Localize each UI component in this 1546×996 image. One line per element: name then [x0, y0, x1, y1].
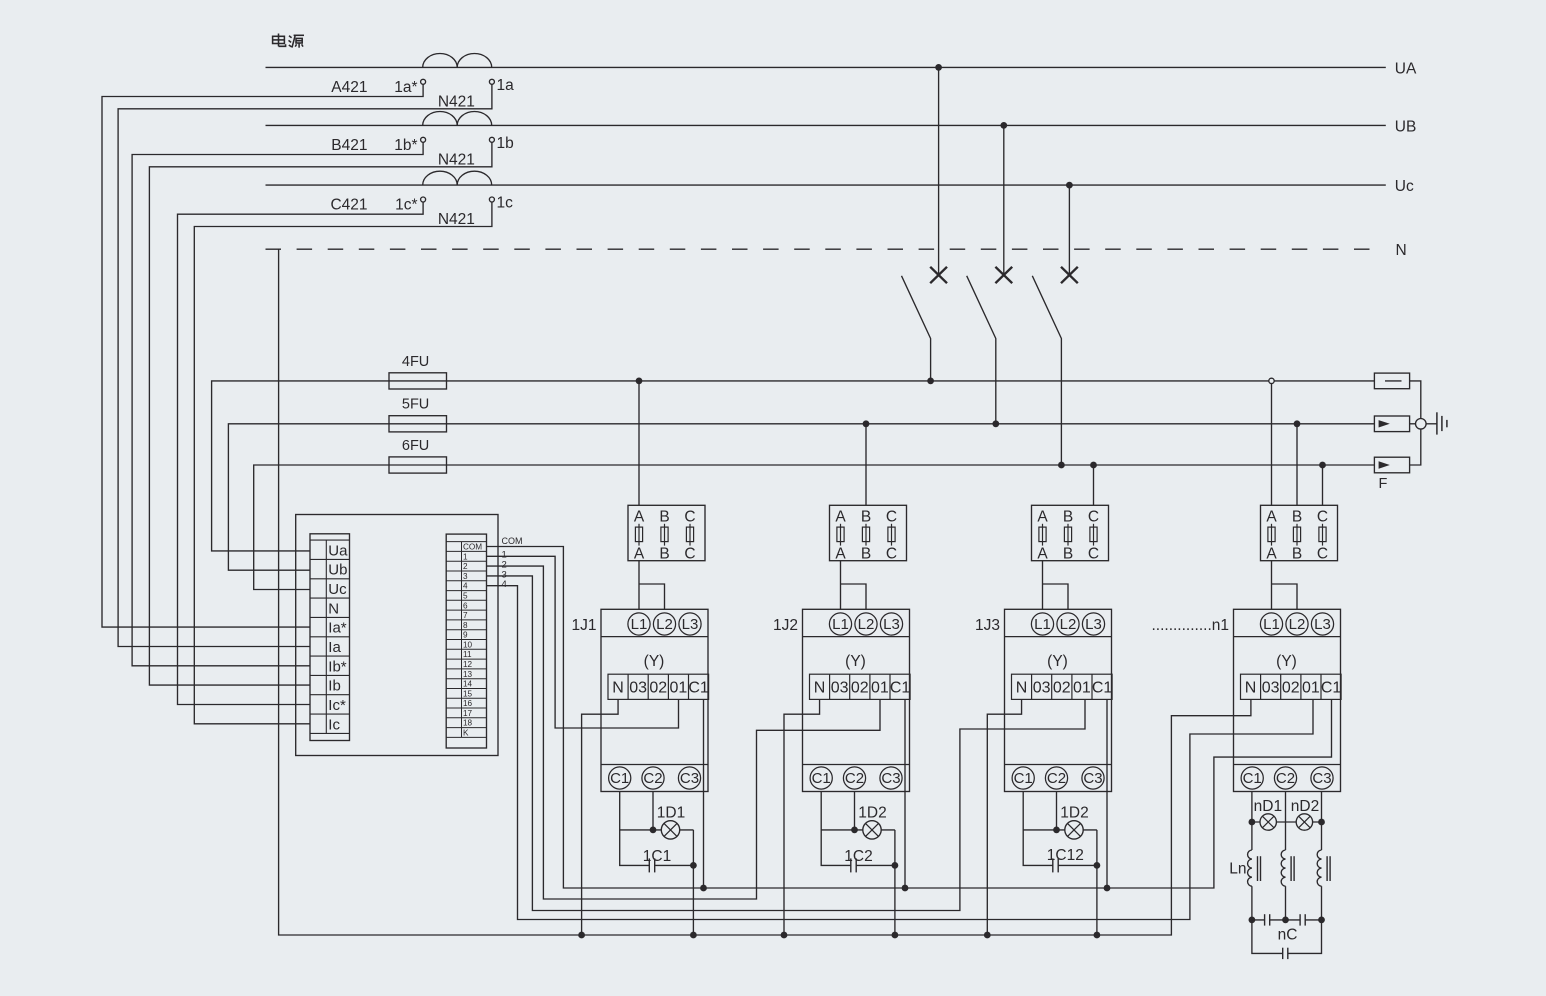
arrester box 1 element line [1385, 380, 1402, 382]
inductor Ln coil [1248, 850, 1252, 886]
svg-text:B: B [1063, 509, 1073, 526]
svg-text:C: C [1088, 545, 1099, 562]
svg-text:13: 13 [463, 670, 473, 679]
svg-text:A421: A421 [331, 79, 367, 96]
fuse box A B C of n1 [1261, 505, 1338, 560]
wire lamp row of 1J2 [821, 829, 895, 831]
svg-text:C3: C3 [680, 770, 699, 787]
svg-text:A: A [1266, 545, 1277, 562]
svg-text:A: A [835, 545, 846, 562]
svg-text:A: A [1266, 509, 1277, 526]
svg-text:Ia: Ia [328, 639, 341, 656]
wire lamp of 1J2 to neutral bus [894, 830, 896, 935]
svg-text:C1: C1 [812, 770, 831, 787]
terminal L2 of n1 [1286, 613, 1308, 635]
svg-text:17: 17 [463, 709, 473, 718]
meter n1 body [1234, 609, 1341, 791]
svg-text:1D2: 1D2 [1060, 804, 1088, 821]
svg-text:N: N [328, 600, 339, 617]
ground symbol [1437, 412, 1447, 434]
terminal L3 of 1J1 [679, 613, 701, 635]
svg-text:C1: C1 [1014, 770, 1033, 787]
svg-text:C3: C3 [1083, 770, 1102, 787]
current transformer C421 / N421 winding arcs [423, 171, 492, 185]
wire n1 C1 drop [1251, 792, 1253, 851]
terminal L3 of n1 [1311, 613, 1333, 635]
svg-text:Uc: Uc [1395, 178, 1414, 195]
node lamp net of 1J2 on neutral bus [892, 932, 899, 939]
wire 4FU to n1 fuse A [1271, 384, 1273, 506]
svg-text:C421: C421 [330, 197, 367, 214]
svg-text:Ib: Ib [328, 678, 341, 695]
wire lamp row of 1J3 [1023, 829, 1097, 831]
svg-text:02: 02 [1053, 679, 1071, 696]
svg-text:03: 03 [629, 679, 647, 696]
lamp nD1 [1260, 814, 1276, 830]
node n1 C3-lamp [1318, 819, 1325, 826]
svg-text:16: 16 [463, 699, 473, 708]
svg-text:03: 03 [1033, 679, 1051, 696]
svg-text:C: C [886, 509, 897, 526]
switch contact X phase C [1061, 267, 1078, 283]
svg-text:11: 11 [463, 650, 472, 659]
capacitor nC plates (right) [1300, 914, 1305, 925]
svg-text:1J1: 1J1 [572, 617, 597, 634]
fuse 5FU [389, 416, 447, 432]
wire fuse box to L1/L2 of n1 [1272, 561, 1298, 610]
svg-text:C: C [684, 545, 695, 562]
svg-text:L1: L1 [1034, 616, 1051, 633]
inductor lower lead [1251, 886, 1253, 920]
lamp 1D1 [661, 821, 679, 839]
meter 1J3 body [1005, 609, 1112, 791]
svg-text:B: B [861, 545, 871, 562]
inductor Ln coil [1281, 850, 1285, 886]
terminal block outer box [296, 515, 498, 756]
svg-text:C3: C3 [881, 770, 900, 787]
inductor lower lead [1285, 886, 1287, 920]
terminal L2 of 1J2 [855, 613, 877, 635]
wire net COM : C1 bus to all meters and n1 C1 [487, 547, 1332, 889]
terminal C3 (bottom) of 1J1 [678, 767, 700, 789]
svg-text:C: C [1088, 509, 1099, 526]
svg-text:C1: C1 [688, 679, 709, 696]
wire 4FU to 1J1 fuse A [638, 381, 640, 505]
svg-text:Ln: Ln [1229, 861, 1246, 878]
svg-text:B: B [659, 509, 669, 526]
svg-text:COM: COM [502, 536, 523, 546]
svg-text:N: N [1245, 679, 1257, 696]
fuse B of 1J3 [1067, 524, 1069, 546]
wire n1 lamp row [1252, 821, 1322, 823]
svg-text:1J2: 1J2 [773, 617, 798, 634]
node 5FU feed n1 [1294, 420, 1301, 427]
wire 1a to terminal strip [118, 84, 492, 646]
svg-text:1D2: 1D2 [858, 804, 886, 821]
svg-text:1C12: 1C12 [1047, 847, 1084, 864]
terminal L1 of n1 [1260, 613, 1282, 635]
terminal row N 03 02 01 C1 of n1 [1241, 674, 1342, 699]
svg-text:L2: L2 [858, 616, 875, 633]
node 4FU feed 1J1 [636, 378, 643, 385]
node C1 of 1J1 on COM bus [700, 885, 707, 892]
node N of 1J1 on neutral bus [578, 932, 585, 939]
svg-text:L1: L1 [1263, 616, 1280, 633]
svg-text:Ub: Ub [328, 562, 347, 579]
switch blade phase A [902, 276, 931, 381]
fuse box A B C of 1J1 [628, 505, 705, 560]
svg-text:N: N [814, 679, 826, 696]
meter 1J2 body [803, 609, 910, 791]
terminal 1c* circle [421, 197, 426, 202]
svg-text:K: K [463, 729, 469, 738]
terminal 1b* circle [421, 137, 426, 142]
fuse A of n1 [1271, 524, 1273, 546]
svg-text:6: 6 [463, 601, 468, 610]
svg-text:3: 3 [463, 572, 468, 581]
terminal 1c circle [489, 197, 494, 202]
node capacitor 1C2 junction [892, 862, 899, 869]
fuse A of 1J2 [840, 524, 842, 546]
node C2-lamp of 1J1 [650, 827, 657, 834]
svg-text:7: 7 [463, 611, 468, 620]
node n1 cap row C2 [1282, 917, 1289, 924]
node N of 1J2 on neutral bus [781, 932, 788, 939]
fuse B of 1J2 [865, 524, 867, 546]
svg-text:A: A [634, 545, 645, 562]
node 6FU feed 1J3 [1090, 462, 1097, 469]
node 6FU feed n1 [1319, 462, 1326, 469]
node n1 C1-lamp [1249, 819, 1256, 826]
fuse box A B C of 1J3 [1032, 505, 1109, 560]
inductor Ln coil [1317, 850, 1321, 886]
svg-text:01: 01 [1302, 679, 1320, 696]
wire n1 capacitor row [1252, 919, 1322, 921]
terminal row N 03 02 01 C1 of 1J1 [608, 674, 709, 699]
terminal C2 (bottom) of 1J2 [843, 767, 865, 789]
terminal L3 of 1J3 [1082, 613, 1104, 635]
terminal C2 (bottom) of 1J3 [1045, 767, 1067, 789]
svg-text:L2: L2 [656, 616, 673, 633]
wire arrester common vertical [1410, 381, 1421, 465]
svg-text:1C2: 1C2 [844, 848, 872, 865]
wire 4FU bus line with drop to voltage terminal [212, 381, 1375, 551]
svg-text:N421: N421 [438, 211, 475, 228]
svg-text:UA: UA [1395, 60, 1417, 77]
terminal row N 03 02 01 C1 of 1J2 [810, 674, 911, 699]
svg-text:C: C [886, 545, 897, 562]
svg-text:15: 15 [463, 689, 473, 698]
wire fuse box to L1/L2 of 1J1 [639, 561, 665, 610]
fuse 6FU [389, 457, 447, 473]
svg-text:1a*: 1a* [394, 79, 417, 96]
fuse B of n1 [1296, 524, 1298, 546]
svg-text:01: 01 [871, 679, 889, 696]
svg-text:C3: C3 [1312, 770, 1331, 787]
node tap phase B [1000, 122, 1007, 129]
fuse C of 1J3 [1093, 524, 1095, 546]
svg-text:nC: nC [1278, 927, 1298, 944]
svg-text:Ia*: Ia* [328, 620, 347, 637]
voltage/current terminal strip (left) [310, 534, 350, 741]
wire 6FU bus line with drop to voltage terminal [254, 465, 1375, 590]
svg-text:18: 18 [463, 719, 473, 728]
svg-text:COM: COM [463, 543, 482, 552]
fuse C of 1J1 [689, 524, 691, 546]
node C2-lamp of 1J3 [1053, 827, 1060, 834]
terminal L3 of 1J2 [880, 613, 902, 635]
inductor lower lead [1321, 886, 1323, 920]
svg-text:B: B [1292, 509, 1302, 526]
svg-text:nD2: nD2 [1291, 798, 1319, 815]
svg-text:6FU: 6FU [402, 438, 429, 454]
svg-text:C1: C1 [610, 770, 629, 787]
wire 1c to terminal strip [194, 202, 492, 724]
svg-text:1: 1 [463, 552, 468, 561]
wire C1 of 1J2 to COM bus [904, 699, 906, 888]
svg-text:..............n1: ..............n1 [1151, 617, 1229, 634]
terminal L2 of 1J3 [1057, 613, 1079, 635]
label 电源 (power source, drawn glyphs) [273, 34, 304, 48]
wire C1 of 1J1 to COM bus [703, 699, 705, 888]
svg-text:(Y): (Y) [1047, 653, 1068, 670]
meter 1J1 body [601, 609, 708, 791]
svg-text:4FU: 4FU [402, 354, 429, 370]
svg-text:Ua: Ua [328, 542, 348, 559]
node lamp net of 1J3 on neutral bus [1094, 932, 1101, 939]
node blade to bus phase B [992, 420, 999, 427]
svg-text:B: B [1063, 545, 1073, 562]
terminal C1 (bottom) of 1J1 [609, 767, 631, 789]
switch blade phase C [1032, 276, 1061, 465]
arrester box 3 (bottom, F) [1374, 457, 1409, 473]
svg-text:02: 02 [1282, 679, 1300, 696]
svg-text:5: 5 [463, 591, 468, 600]
wire box2 to earth circle [1410, 423, 1416, 425]
arrester box 3 arrow [1379, 461, 1390, 468]
wire lamp of 1J3 to neutral bus [1096, 830, 1098, 935]
node C2-lamp of 1J2 [851, 827, 858, 834]
wire lamp of 1J1 to neutral bus [692, 830, 694, 935]
svg-text:9: 9 [463, 631, 468, 640]
current transformer A421 / N421 winding arcs [423, 54, 492, 68]
wire net 4 : to n1 terminal 01 [487, 586, 1314, 920]
node n1 cap row C3 [1318, 917, 1325, 924]
terminal L2 of 1J1 [653, 613, 675, 635]
terminal C2 (bottom) of 1J1 [642, 767, 664, 789]
svg-text:A: A [1037, 545, 1048, 562]
svg-text:B: B [659, 545, 669, 562]
wire 5FU bus line with drop to voltage terminal [228, 424, 1374, 570]
terminal 1a* circle [421, 79, 426, 84]
svg-text:1C1: 1C1 [643, 848, 671, 865]
arrester box 2 (middle) [1374, 416, 1409, 432]
inductor core bars [1327, 856, 1330, 881]
lamp 1D2 [863, 821, 881, 839]
svg-text:1D1: 1D1 [657, 804, 685, 821]
node blade to bus phase C [1058, 462, 1065, 469]
terminal C3 (bottom) of 1J3 [1082, 767, 1104, 789]
svg-text:C: C [1317, 509, 1328, 526]
svg-text:N421: N421 [438, 152, 475, 169]
fuse 4FU [389, 373, 447, 389]
inductor core bars [1291, 856, 1294, 881]
wire 5FU to n1 fuse B [1296, 424, 1298, 506]
svg-text:4: 4 [502, 579, 507, 590]
svg-text:(Y): (Y) [1276, 653, 1297, 670]
svg-text:C2: C2 [1047, 770, 1066, 787]
wire C1 bottom of 1J3 down to capacitor 1C12 [1023, 792, 1053, 866]
wire C2 of 1J1 to lamp [652, 792, 654, 830]
wire C2 of 1J2 to lamp [854, 792, 856, 830]
current transformer B421 / N421 winding arcs [423, 112, 492, 126]
capacitor 1C1 [648, 858, 650, 872]
switch contact X phase B [995, 267, 1012, 283]
neutral line N (dashed) [266, 248, 1382, 250]
svg-text:12: 12 [463, 660, 473, 669]
terminal C1 (bottom) of 1J3 [1012, 767, 1034, 789]
fuse C of n1 [1322, 524, 1324, 546]
svg-text:N421: N421 [438, 94, 475, 111]
phase line UA [266, 66, 1386, 68]
fuse A of 1J3 [1042, 524, 1044, 546]
svg-text:L1: L1 [631, 616, 648, 633]
lamp 1D2 [1065, 821, 1083, 839]
svg-text:L3: L3 [682, 616, 699, 633]
node blade to bus phase A [927, 378, 934, 385]
wire circle to ground [1426, 423, 1437, 425]
wire phase C drop to switch [1068, 185, 1070, 275]
inductor core bars [1258, 856, 1261, 881]
svg-text:N: N [1396, 242, 1407, 259]
earth connection circle [1416, 419, 1427, 430]
bottom capacitor plates [1283, 948, 1288, 959]
svg-text:C1: C1 [1092, 679, 1113, 696]
wire 5FU to 1J2 fuse B [865, 424, 867, 506]
svg-text:Uc: Uc [328, 581, 347, 598]
svg-text:C1: C1 [1243, 770, 1262, 787]
svg-text:4: 4 [463, 582, 468, 591]
wire phase A drop to switch [938, 67, 940, 275]
fuse box A B C of 1J2 [830, 505, 907, 560]
terminal C3 (bottom) of n1 [1311, 767, 1333, 789]
terminal 1b circle [489, 137, 494, 142]
wire C1 bottom of 1J2 down to capacitor 1C2 [821, 792, 851, 866]
terminal C3 (bottom) of 1J2 [880, 767, 902, 789]
terminal L1 of 1J3 [1031, 613, 1053, 635]
switch contact X phase A [930, 267, 947, 283]
svg-text:1b: 1b [497, 135, 514, 152]
svg-text:Ic*: Ic* [328, 697, 346, 714]
terminal row N 03 02 01 C1 of 1J3 [1012, 674, 1113, 699]
node C1 of 1J2 on COM bus [902, 885, 909, 892]
svg-text:UB: UB [1395, 118, 1417, 135]
svg-text:B421: B421 [331, 137, 367, 154]
node N of 1J3 on neutral bus [984, 932, 991, 939]
svg-text:L2: L2 [1060, 616, 1077, 633]
terminal C2 (bottom) of n1 [1274, 767, 1296, 789]
capacitor 1C2 [850, 858, 852, 872]
svg-text:02: 02 [851, 679, 869, 696]
node capacitor 1C1 junction [690, 862, 697, 869]
svg-text:B: B [861, 509, 871, 526]
wire N of 1J3 to neutral bus [987, 699, 1021, 935]
svg-text:10: 10 [463, 640, 473, 649]
node tap phase A [935, 64, 942, 71]
svg-text:03: 03 [831, 679, 849, 696]
svg-text:C2: C2 [643, 770, 662, 787]
svg-text:A: A [634, 509, 645, 526]
svg-text:C1: C1 [890, 679, 911, 696]
svg-text:F: F [1378, 476, 1387, 492]
fuse C of 1J2 [891, 524, 893, 546]
wire lamp row of 1J1 [620, 829, 694, 831]
wire C1 bottom of 1J1 down to capacitor 1C1 [620, 792, 650, 866]
svg-text:C1: C1 [1321, 679, 1342, 696]
svg-text:(Y): (Y) [845, 653, 866, 670]
wire 6FU to 1J3 fuse C [1093, 465, 1095, 505]
svg-text:C: C [684, 509, 695, 526]
capacitor 1C12 [1052, 858, 1054, 872]
svg-text:A: A [1037, 509, 1048, 526]
svg-text:1c: 1c [497, 195, 514, 212]
svg-text:N: N [612, 679, 624, 696]
capacitor nC plates (left) [1265, 914, 1270, 925]
svg-text:C2: C2 [1276, 770, 1295, 787]
lamp nD2 [1296, 814, 1312, 830]
svg-text:14: 14 [463, 680, 473, 689]
svg-text:03: 03 [1262, 679, 1280, 696]
svg-text:Ic: Ic [328, 716, 340, 733]
node lamp net of 1J1 on neutral bus [690, 932, 697, 939]
svg-text:01: 01 [1073, 679, 1091, 696]
svg-text:1J3: 1J3 [975, 617, 1000, 634]
wire fuse box to L1/L2 of 1J2 [841, 561, 867, 610]
wire C1 of 1J3 to COM bus [1106, 699, 1108, 888]
svg-text:1b*: 1b* [394, 137, 417, 154]
svg-text:2: 2 [463, 562, 468, 571]
svg-text:1a: 1a [497, 77, 515, 94]
svg-text:N: N [1016, 679, 1028, 696]
wire net 2 : to 1J2 terminal 01 [487, 566, 881, 899]
terminal 1a circle [489, 79, 494, 84]
wire 1c* to terminal strip [178, 202, 424, 705]
svg-text:L2: L2 [1289, 616, 1306, 633]
node capacitor 1C12 junction [1094, 862, 1101, 869]
svg-text:C: C [1317, 545, 1328, 562]
svg-text:C2: C2 [845, 770, 864, 787]
wire fuse box to L1/L2 of 1J3 [1043, 561, 1069, 610]
svg-text:A: A [835, 509, 846, 526]
wire n1 C2 drop [1285, 792, 1287, 851]
wire n1 C3 drop [1321, 792, 1323, 851]
terminal C1 (bottom) of n1 [1241, 767, 1263, 789]
node C1 of 1J3 on COM bus [1104, 885, 1111, 892]
terminal L1 of 1J2 [829, 613, 851, 635]
wire n1 bottom loop with capacitor [1252, 920, 1322, 954]
wire net 1 : to 1J1 terminal 01 [487, 556, 679, 728]
wire 6FU to n1 fuse C [1322, 465, 1324, 505]
phase line UB [266, 124, 1386, 126]
node n1 cap row C1 [1249, 917, 1256, 924]
svg-text:(Y): (Y) [644, 653, 665, 670]
wire 1b to terminal strip [149, 142, 492, 685]
switch blade phase B [967, 276, 996, 424]
svg-text:L3: L3 [883, 616, 900, 633]
wire 1a* to terminal strip [102, 84, 423, 627]
COM terminal strip (right) [446, 534, 486, 748]
arrester box 2 arrow [1379, 420, 1390, 427]
